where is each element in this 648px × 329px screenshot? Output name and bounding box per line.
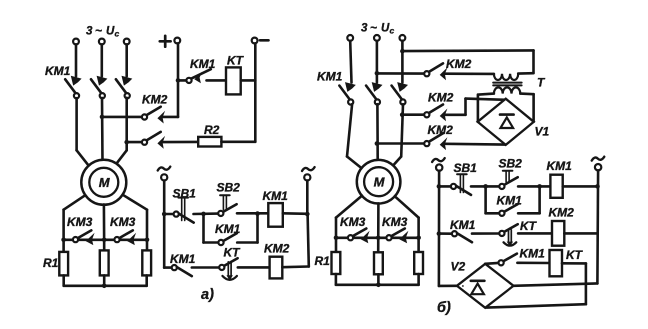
svg-text:3: 3 (86, 26, 93, 38)
svg-text:KM3: KM3 (67, 215, 93, 229)
svg-text:KM2: KM2 (428, 123, 454, 137)
svg-text:R2: R2 (204, 123, 220, 137)
svg-text:KT: KT (227, 54, 245, 68)
svg-text:KM2: KM2 (142, 93, 168, 107)
svg-text:KM1: KM1 (45, 64, 71, 78)
svg-text:~: ~ (370, 21, 377, 35)
svg-text:V1: V1 (535, 125, 550, 139)
svg-text:KM1: KM1 (263, 189, 289, 203)
svg-text:T: T (537, 76, 546, 90)
svg-text:KM1: KM1 (170, 252, 196, 266)
svg-text:KM1: KM1 (520, 247, 546, 261)
svg-text:KM1: KM1 (215, 222, 241, 236)
svg-text:V2: V2 (451, 260, 466, 274)
svg-text:R1: R1 (43, 256, 59, 270)
svg-text:KM1: KM1 (450, 218, 476, 232)
svg-text:KT: KT (224, 246, 242, 260)
svg-text:R1: R1 (315, 254, 331, 268)
svg-text:KM3: KM3 (382, 215, 408, 229)
svg-text:б): б) (437, 300, 451, 316)
svg-text:KM2: KM2 (428, 91, 454, 105)
svg-text:KM1: KM1 (547, 159, 573, 173)
svg-text:SB2: SB2 (217, 181, 241, 195)
svg-text:KM1: KM1 (317, 70, 343, 84)
svg-text:M: M (374, 175, 386, 190)
svg-text:KM2: KM2 (549, 206, 575, 220)
svg-text:KT: KT (566, 248, 584, 262)
svg-text:KM2: KM2 (446, 57, 472, 71)
svg-text:KM1: KM1 (190, 57, 216, 71)
svg-text:а): а) (201, 287, 214, 303)
svg-text:~: ~ (95, 24, 102, 38)
svg-text:KM2: KM2 (264, 242, 290, 256)
svg-text:M: M (99, 175, 111, 190)
svg-text:SB2: SB2 (499, 157, 523, 171)
svg-text:KT: KT (520, 219, 538, 233)
svg-text:KM3: KM3 (110, 215, 136, 229)
svg-text:c: c (115, 29, 120, 39)
svg-text:SB1: SB1 (454, 161, 478, 175)
svg-text:c: c (390, 26, 395, 36)
svg-text:SB1: SB1 (173, 186, 197, 200)
svg-text:3: 3 (361, 23, 368, 35)
svg-text:KM3: KM3 (340, 215, 366, 229)
svg-text:KM1: KM1 (497, 194, 523, 208)
